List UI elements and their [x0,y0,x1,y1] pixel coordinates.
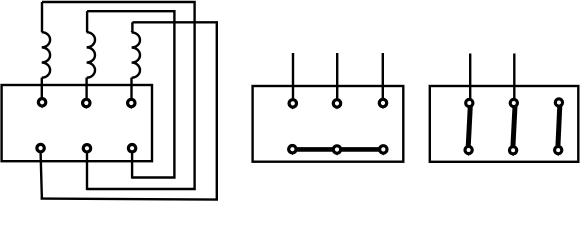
wire: stub from bottom middle terminal down [86,153,88,191]
terminal V1 (middle box, top row 2) [333,100,340,110]
terminal V2 (middle box, bottom row 3) [380,146,387,156]
delta link bar 1 [468,106,470,147]
wire: coil L1 bottom lead to terminal U1 [41,78,43,99]
delta link bar 2 [513,106,515,147]
wire: coil L1 top over the top, down right side, to bottom middle terminal [42,2,195,189]
terminal W1 (middle box, top row 3) [379,99,386,109]
terminal V1 (right box, top row 2) [510,99,517,109]
terminal U2 (middle box, bottom row 2) [333,146,340,156]
wire: coil L1 top vertical [41,2,43,32]
terminal W2 (left box, bottom row 1) [37,144,44,151]
coil L3 (right winding) [132,32,140,77]
wire: coil L3 top vertical [130,22,133,32]
terminal U2 (right box, bottom row 2) [509,147,516,157]
supply lead L2 (middle) [336,53,338,99]
wire: coil L3 bottom lead to terminal W1 [130,78,132,99]
terminal U2 (left box, bottom row 2) [83,145,90,152]
terminal W1 (left box, top row 3) [128,99,135,109]
coil L1 (left winding) [42,32,50,77]
terminal U1 (right box, top row 1) [466,99,473,109]
wire: coil L3 top over, down, to bottom left terminal [41,22,217,199]
wire: stub from bottom left terminal down [41,153,42,200]
supply lead L1 (right) [469,54,471,99]
supply lead L3 (middle) [382,53,384,99]
supply lead L2 (right) [513,54,515,99]
delta link bar 3 [558,106,560,147]
wire: coil L2 top over, down, to bottom right terminal [87,11,174,177]
terminal U1 (middle box, top row 1) [289,100,296,110]
terminal V2 (right box, bottom row 3) [555,147,562,157]
terminal V2 (left box, bottom row 3) [128,145,135,152]
terminal box (middle) [253,86,404,162]
terminal box (right) [430,86,579,162]
star-point shorting bar [291,147,385,152]
terminal W1 (right box, top row 3) [555,99,562,109]
supply lead L1 (middle) [292,53,294,99]
wire: stub from bottom right terminal down [131,153,133,179]
wire: coil L2 top vertical [86,11,88,32]
terminal box (left) [2,85,152,161]
coil L2 (middle winding) [87,32,95,77]
wire: coil L2 bottom lead to terminal V1 [85,78,87,99]
terminal U1 (left box, top row 1) [38,99,45,109]
terminal V1 (left box, top row 2) [83,99,90,109]
terminal W2 (middle box, bottom row 1) [289,146,296,156]
terminal W2 (right box, bottom row 1) [465,146,472,156]
